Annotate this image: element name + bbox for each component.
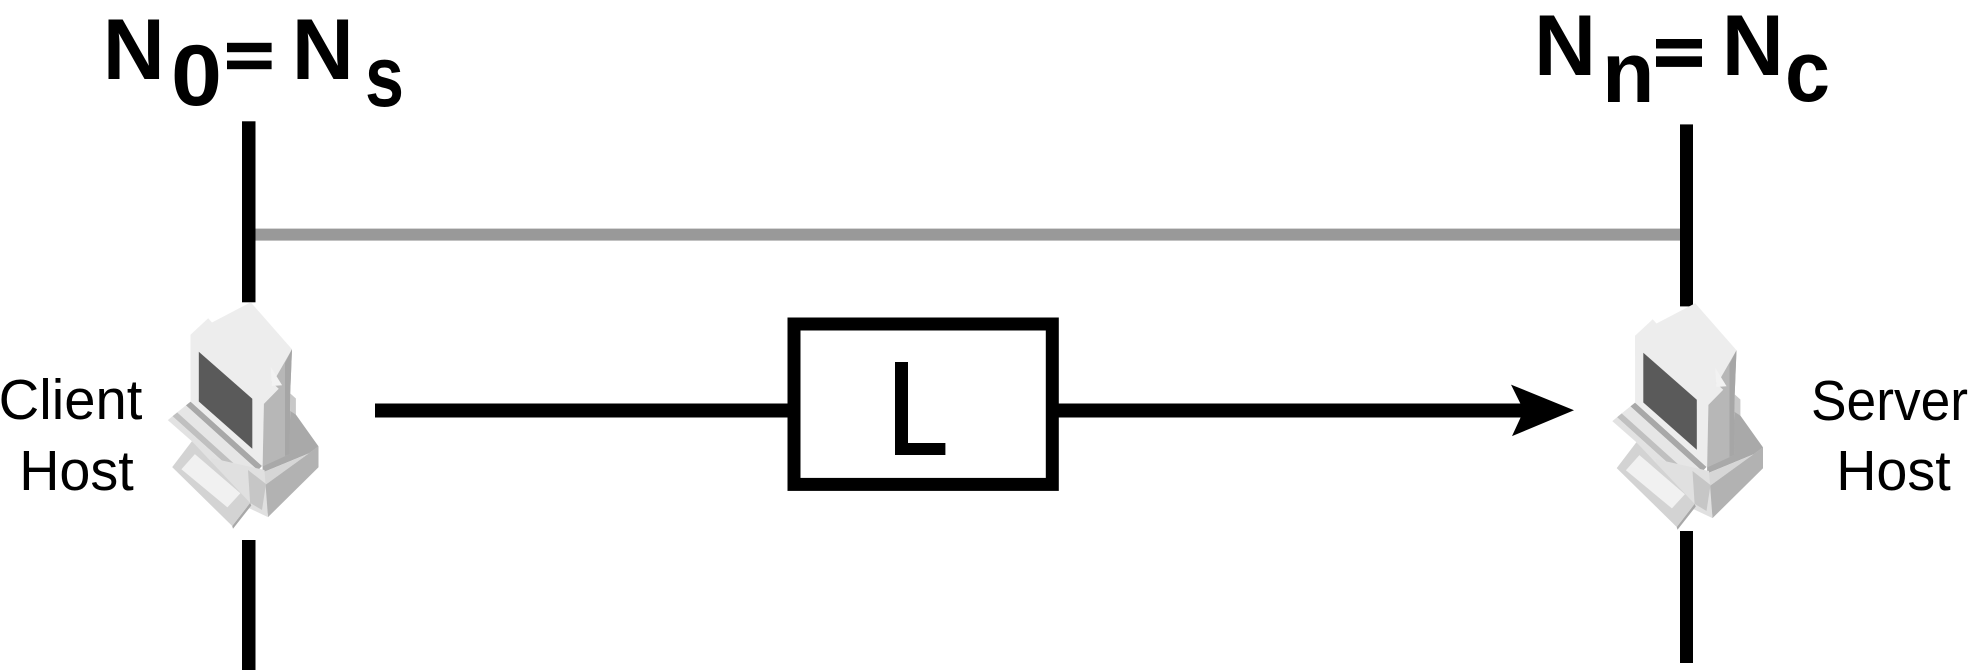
letter L in box xyxy=(895,362,945,455)
arrow head xyxy=(1511,385,1574,437)
node N0 vertical line lower segment xyxy=(242,540,256,670)
node N0 vertical line upper segment xyxy=(242,121,256,302)
client host icon xyxy=(168,302,319,529)
link box L xyxy=(794,324,1052,484)
svg-text:N: N xyxy=(103,2,165,98)
svg-text:0: 0 xyxy=(171,28,222,124)
svg-text:Client: Client xyxy=(0,368,143,432)
svg-text:N: N xyxy=(1534,0,1596,94)
svg-text:Server: Server xyxy=(1811,369,1968,433)
svg-text:n: n xyxy=(1602,25,1655,121)
svg-text:N: N xyxy=(1722,0,1784,94)
svg-text:Host: Host xyxy=(19,439,134,503)
label equals left xyxy=(227,43,272,52)
svg-text:Host: Host xyxy=(1836,439,1951,503)
node Nn vertical line upper segment xyxy=(1680,124,1693,306)
svg-text:N: N xyxy=(292,2,354,98)
arrow shaft xyxy=(375,404,1523,418)
node Nn vertical line lower segment xyxy=(1680,531,1693,663)
svg-text:s: s xyxy=(365,29,404,125)
server host icon xyxy=(1612,303,1763,530)
bus link (gray horizontal line) xyxy=(249,229,1687,241)
label equals right xyxy=(1656,39,1702,49)
svg-text:c: c xyxy=(1785,24,1830,120)
